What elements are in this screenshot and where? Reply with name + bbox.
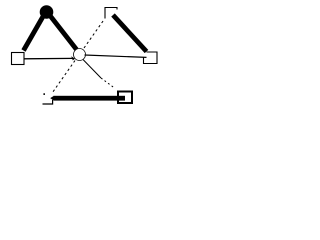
bottom-left open bracket [43,100,53,104]
link arm upper-left (joint circle to left slider) [24,13,46,51]
bottom bar pointed left end [50,96,54,101]
link arm right (top-right slider to right slider) [113,15,147,52]
dot at bottom-left bracket corner [43,93,45,95]
link arm upper-right (joint circle to hub) [48,13,77,50]
top-right slider square (open) [105,8,117,19]
bottom-right slider square [118,92,132,104]
dashed construction line hub to bottom-left [53,61,76,93]
line hub to bottom-right slider: solid part [83,60,101,79]
thin link left (left slider to hub) [24,57,73,59]
arrow tick at hub end of thin link [71,56,75,60]
hub circle [74,49,86,61]
dashed construction line hub to top-right slider [84,19,105,48]
line hub to bottom-right slider: dashed tail [101,78,115,88]
filled joint circle [40,5,54,19]
left slider square [12,53,25,65]
thin link right (hub to right slider) [85,55,147,57]
bottom thick bar [54,96,126,101]
right slider square (open) [144,52,158,64]
